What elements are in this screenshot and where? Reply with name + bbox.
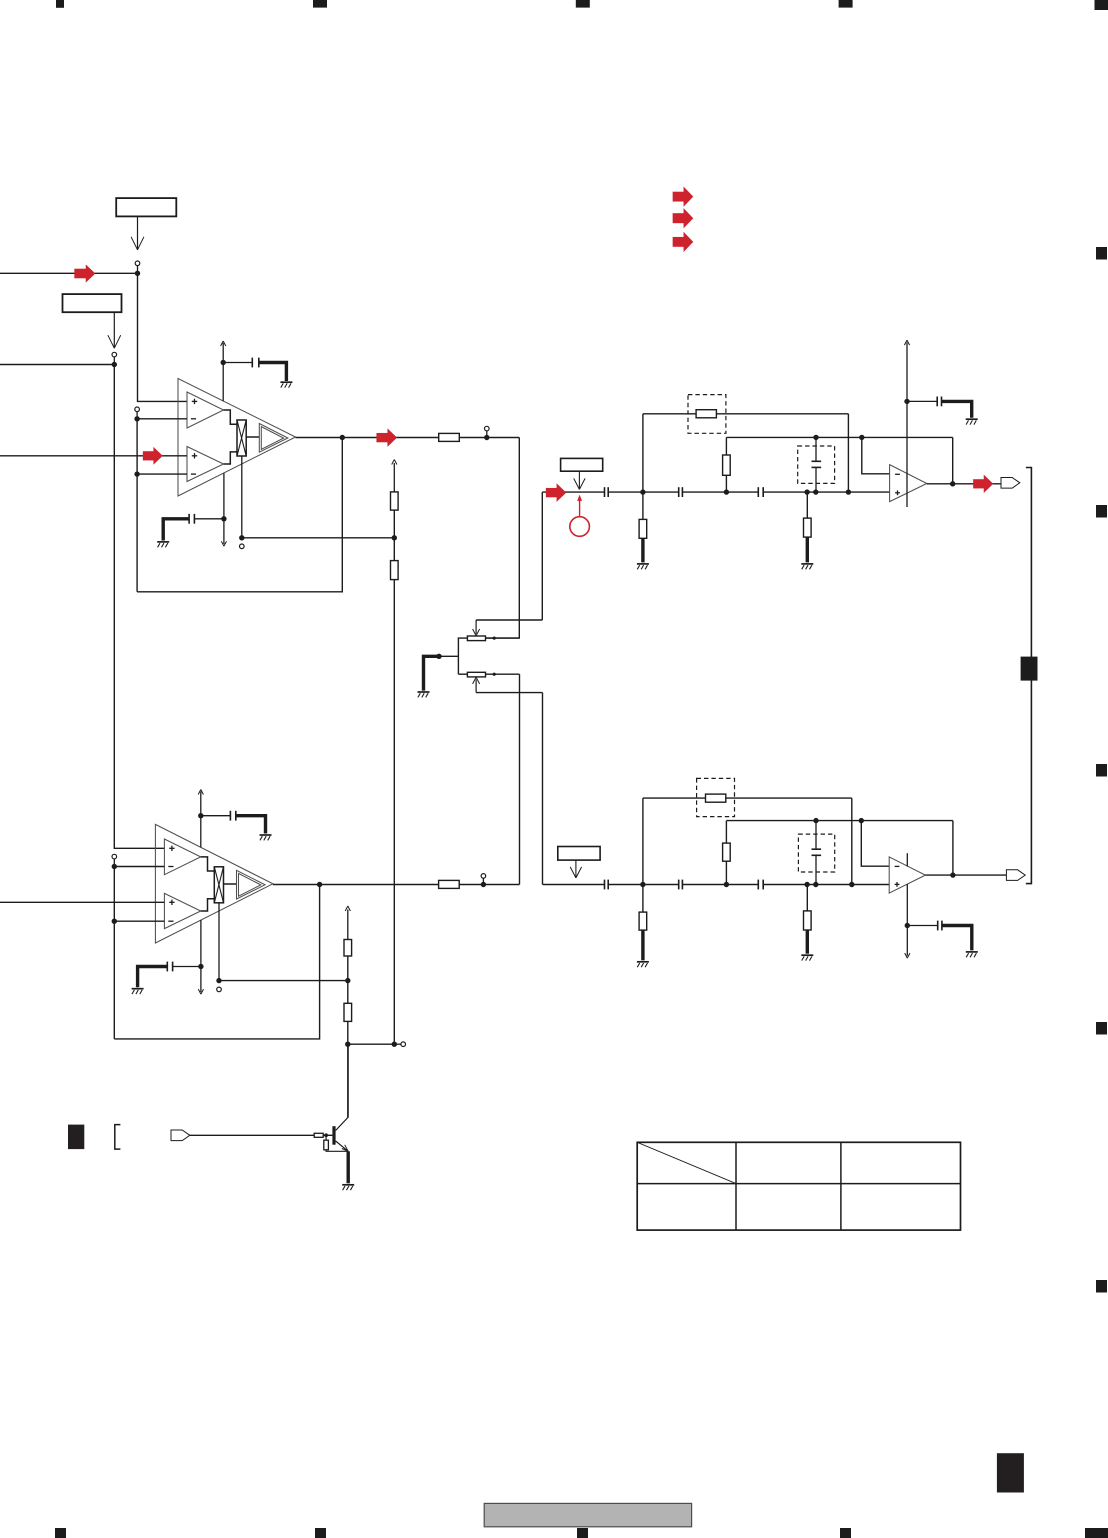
- connector OUT2: [1006, 870, 1025, 881]
- U3 -A pin label: [168, 866, 173, 868]
- wire VR2 right riser to U3 output: [519, 674, 521, 884]
- joint dot VR1 right: [493, 637, 496, 640]
- terminal circle U3 -A: [112, 854, 117, 859]
- op-amp U4 triangle: [889, 857, 925, 893]
- pointer arrow from label IN2: [113, 312, 115, 348]
- wire input 2: [0, 364, 114, 366]
- table column divider 1: [735, 1142, 737, 1230]
- resistor R-out-2 (horizontal): [439, 880, 460, 888]
- resistor R-sk1 vertical: [725, 475, 727, 492]
- wire VR1 wiper line: [476, 619, 542, 621]
- ground U3 V+: [260, 834, 272, 836]
- wire C1b to C1c: [682, 491, 758, 493]
- stub U1 -A terminal: [136, 412, 138, 417]
- node filter1-3: [804, 489, 809, 494]
- node filter2 minus tap: [859, 818, 864, 823]
- wire filter1 input: [542, 491, 604, 493]
- wire R-base to Q1: [323, 1134, 332, 1136]
- wire feedback resistor line f1: [643, 413, 849, 415]
- registration mark top-left: [56, 0, 64, 8]
- U3 +A pin label: [169, 847, 174, 849]
- node pot ground: [436, 654, 441, 659]
- resistor R-pulldown: [325, 1135, 327, 1140]
- wire divider join: [348, 1043, 395, 1045]
- red flow arrow U1 output: [377, 429, 398, 447]
- label box IN2: [63, 294, 122, 312]
- capacitor C2a series: [604, 880, 606, 890]
- wire filter2 input: [543, 884, 605, 886]
- pointer arrow from label ADJ2: [575, 860, 577, 878]
- U4 + pin label: [895, 883, 900, 885]
- thick lead U4 cap to ground: [942, 926, 972, 951]
- resistor R-fb2 (horizontal): [706, 794, 726, 802]
- wire U1 A output to mixer: [224, 410, 238, 424]
- node U1 -A: [134, 416, 139, 421]
- wire VR2 wiper riser to filter2: [542, 693, 544, 885]
- wire U4 feedback riser: [952, 821, 954, 876]
- supply arrow divider 2: [347, 910, 349, 940]
- resistor R-gnd f1-3: [806, 492, 808, 518]
- wire IN1 to U1 +A input: [138, 273, 188, 401]
- wire C2c to U4: [763, 884, 889, 886]
- legend red arrow 2: [673, 208, 694, 228]
- wire node to Rdiv1b: [393, 538, 395, 561]
- node divider join left: [345, 1042, 350, 1047]
- wire U4 minus feed: [861, 821, 889, 867]
- U3 mixer bias pin: [218, 903, 220, 981]
- thick lead U1 V+ cap to ground: [259, 363, 287, 382]
- wire U3 B output to mixer: [201, 899, 215, 911]
- node U1 -B: [134, 471, 139, 476]
- capacitor C-fb2 (vertical): [815, 821, 817, 850]
- registration mark right 4: [1096, 1022, 1107, 1035]
- U1 -A pin label: [191, 418, 196, 420]
- table row divider: [637, 1183, 960, 1185]
- capacitor U4 decoupling: [937, 921, 939, 931]
- U3 V- supply line: [200, 920, 202, 992]
- node U1 bias: [239, 535, 244, 540]
- U2 + pin label: [895, 492, 900, 494]
- capacitor C1a series: [604, 487, 606, 497]
- node U1 output feedback tap: [340, 435, 345, 440]
- op-amp U1 outer triangle: [178, 379, 296, 497]
- bracket mark: [115, 1125, 121, 1150]
- thick lead pot ground: [424, 656, 440, 690]
- ground filter1 node1: [637, 563, 649, 565]
- label box ADJ1: [561, 458, 603, 471]
- wire pot ground tap: [439, 655, 458, 657]
- node out2: [481, 882, 486, 887]
- registration mark top-right corner: [1095, 0, 1108, 10]
- resistor R-gnd f2-1: [642, 885, 644, 913]
- registration mark bottom-right corner: [1085, 1528, 1108, 1538]
- stub out2 terminal: [482, 878, 484, 882]
- transistor Q1 collector: [336, 1044, 349, 1130]
- dashed box R-fb1: [688, 395, 726, 434]
- wire Rdiv1a to node: [393, 510, 395, 538]
- U4 V+ stub: [906, 853, 908, 866]
- node filter2-3: [804, 882, 809, 887]
- op-amp U1 section B triangle: [187, 447, 224, 482]
- label box ADJ2: [558, 847, 600, 861]
- terminal circle divider: [401, 1042, 406, 1047]
- registration mark right 5: [1096, 1280, 1107, 1293]
- wire node to Rdiv2b: [347, 981, 349, 1004]
- wire after R-out-2: [459, 884, 519, 886]
- stub U3 -A terminal: [113, 859, 115, 864]
- wire U3 V- to cap: [173, 966, 201, 968]
- capacitor U1 V- decoupling: [188, 514, 190, 524]
- node filter1 minus tap: [859, 435, 864, 440]
- red measurement circle filter1: [570, 517, 590, 537]
- wire U1 output: [296, 437, 439, 439]
- red measurement arrow filter1: [579, 499, 581, 517]
- wire mute input: [190, 1134, 314, 1136]
- terminal circle U1 -A: [135, 407, 140, 412]
- ground filter1 node3: [801, 563, 813, 565]
- node U3 -B: [112, 919, 117, 924]
- resistor R-sk2 vertical: [725, 861, 727, 884]
- ground pots: [418, 691, 430, 693]
- node filter1-2: [724, 489, 729, 494]
- red flow arrow output 1: [973, 475, 993, 493]
- wire collector riser: [347, 1044, 349, 1117]
- wire Rdiv2b down: [347, 1021, 349, 1044]
- wire U1 -B input: [137, 473, 187, 475]
- op-amp U1 section A triangle: [187, 392, 224, 428]
- wire U1 out riser to pot1: [486, 438, 520, 639]
- node U3 -A: [112, 864, 117, 869]
- resistor R-fb1 (horizontal): [696, 410, 716, 418]
- potentiometer VR1 body: [467, 636, 485, 641]
- wire U3 -B input: [114, 920, 164, 922]
- wire VR1 left lead: [458, 638, 467, 674]
- connector MUTE input: [171, 1130, 190, 1141]
- resistor Rdiv2a: [344, 940, 352, 957]
- legend red arrow 3: [673, 232, 694, 252]
- registration mark top 2: [313, 0, 327, 8]
- thick lead Q1 emitter to ground: [347, 1151, 350, 1183]
- wire input 1: [0, 272, 138, 274]
- label box IN1: [116, 198, 176, 216]
- table frame: [637, 1142, 960, 1230]
- wire U2 feedback riser: [952, 437, 954, 483]
- pointer arrow from label IN1: [137, 216, 139, 249]
- ground filter2 node3: [801, 954, 813, 956]
- wire mixer to buffer U1: [246, 436, 259, 438]
- node U1 V+ decoupling: [221, 360, 226, 365]
- resistor R-base (horizontal): [314, 1133, 323, 1137]
- registration mark bottom 3: [577, 1528, 588, 1538]
- ground U4: [966, 951, 978, 953]
- buffer triangle U3 outer: [237, 870, 266, 899]
- dashed box R-fb2: [697, 778, 735, 816]
- transistor Q1 emitter: [336, 1141, 349, 1151]
- wire node1 riser f2: [642, 798, 644, 884]
- wire C1a to C1b: [608, 491, 679, 493]
- thick lead U3 V- cap to ground: [138, 967, 168, 988]
- dashed box C-fb1: [798, 446, 835, 483]
- thick lead U1 V- cap to ground: [163, 519, 189, 541]
- U3 feedback wire bottom: [114, 885, 319, 1039]
- buffer triangle U1 inner: [261, 427, 283, 450]
- wire after R-out-1: [459, 437, 519, 439]
- op-amp U2 triangle: [890, 465, 927, 502]
- wire U1 bias to divider: [242, 537, 394, 539]
- resistor R-out-1 (horizontal): [439, 433, 460, 441]
- capacitor C2c series: [757, 880, 759, 890]
- node filter2-4: [849, 882, 854, 887]
- wire U4 supply to cap: [907, 925, 937, 927]
- ground filter2 node1: [637, 961, 649, 963]
- wire U3 -A to -B vertical: [113, 867, 115, 1039]
- U1 -B pin label: [191, 473, 196, 475]
- capacitor C2b series: [678, 880, 680, 890]
- registration mark bottom 4: [840, 1528, 851, 1538]
- capacitor U1 V+ decoupling: [251, 358, 253, 368]
- capacitor U3 V+ decoupling: [229, 811, 231, 821]
- terminal circle U3 bias: [217, 987, 222, 992]
- resistor R-gnd f1-1: [642, 492, 644, 519]
- terminal circle IN2: [112, 352, 117, 357]
- node U4 output: [950, 872, 955, 877]
- output group bracket: [1026, 468, 1032, 884]
- registration mark right 1: [1096, 247, 1107, 260]
- black marker mid-right: [1021, 657, 1038, 681]
- U3 -B pin label: [168, 920, 173, 922]
- ground U1 V+: [280, 381, 292, 383]
- capacitor U2 decoupling: [936, 397, 938, 407]
- dashed box C-fb2: [798, 834, 834, 872]
- wire VR2 wiper line: [476, 692, 542, 694]
- ground U1 V-: [157, 541, 169, 543]
- wire R-fb1 riser to node4: [847, 414, 849, 492]
- red flow arrow filter1 input: [546, 483, 566, 501]
- node U1 V- decoupling: [221, 516, 226, 521]
- node U3 bias: [216, 978, 221, 983]
- node filter2 dashed-cap bottom: [813, 882, 818, 887]
- wire U3 bias to divider 2: [219, 980, 348, 982]
- wire VR2 left lead: [458, 673, 467, 675]
- wire node1 riser: [642, 414, 644, 492]
- wire -A to -B vertical: [136, 419, 138, 592]
- wire U1 B output to mixer: [224, 452, 238, 464]
- wire C2a to C2b: [608, 884, 679, 886]
- U1 feedback wire bottom: [137, 438, 342, 592]
- node U3 V- decoupling: [198, 964, 203, 969]
- wire divider 1 long drop: [393, 580, 395, 1045]
- wire sk1 output line: [726, 436, 952, 438]
- table column divider 2: [840, 1142, 842, 1230]
- wire IN2 to U3 +A input (long riser): [114, 365, 164, 849]
- registration mark bottom 2: [315, 1528, 326, 1538]
- black marker bottom-left: [68, 1125, 84, 1150]
- wire VR2 right lead: [486, 673, 520, 675]
- U3 +B pin label: [169, 901, 174, 903]
- pointer arrow from label ADJ1: [578, 471, 580, 489]
- registration mark top 4: [839, 0, 853, 8]
- node out1: [484, 435, 489, 440]
- node U2 supply decoupling: [904, 399, 909, 404]
- registration mark top 3: [576, 0, 590, 8]
- VR1 wiper: [475, 620, 477, 634]
- registration mark right 3: [1096, 764, 1107, 777]
- ground Q1 emitter: [342, 1184, 354, 1186]
- wire U3 -A input: [114, 866, 164, 868]
- node filter1-1: [640, 489, 645, 494]
- wire U1 V+ to cap: [223, 362, 252, 364]
- wire U3 output: [273, 884, 439, 886]
- U4 - pin label: [895, 865, 900, 867]
- red flow arrow on input 3: [143, 447, 163, 465]
- wire U3 V+ to cap: [201, 815, 231, 817]
- ground U3 V-: [132, 988, 144, 990]
- wire U2 supply to cap: [907, 400, 937, 402]
- resistor Rdiv1b: [391, 561, 399, 580]
- mixer cell U1 (crossed box): [237, 420, 246, 456]
- op-amp U3 outer triangle: [155, 824, 273, 943]
- gray footer bar: [484, 1503, 691, 1526]
- node U4 supply decoupling: [905, 923, 910, 928]
- ground U2: [966, 418, 978, 420]
- resistor Rdiv1a: [391, 492, 399, 510]
- node U3 output feedback tap: [317, 882, 322, 887]
- wire input 3 to U1 +B: [0, 455, 187, 457]
- node U3 V+ decoupling: [198, 813, 203, 818]
- wire U2 minus feed: [862, 437, 890, 473]
- buffer triangle U3 inner: [239, 873, 261, 896]
- node filter1-4: [846, 489, 851, 494]
- connector OUT1: [1001, 478, 1020, 489]
- transistor Q1 base bar: [332, 1126, 335, 1145]
- node U2 output: [950, 481, 955, 486]
- node divider join right: [392, 1042, 397, 1047]
- U2 V+ supply line: [906, 343, 908, 508]
- legend red arrow 1: [673, 187, 694, 207]
- joint dot VR2 right: [493, 673, 496, 676]
- node filter1 dashed-cap bottom: [813, 489, 818, 494]
- wire U3 A output to mixer: [201, 857, 215, 871]
- buffer triangle U1 outer: [259, 424, 288, 453]
- terminal circle IN1: [135, 261, 140, 266]
- VR2 wiper: [475, 679, 477, 692]
- resistor Rdiv2b: [344, 1003, 352, 1021]
- wire C2b to C2c: [682, 884, 758, 886]
- capacitor C1b series: [678, 487, 680, 497]
- terminal circle U1 bias: [240, 544, 245, 549]
- U3 V+ supply line: [200, 792, 202, 848]
- thick lead U2 cap to ground: [942, 401, 972, 417]
- terminal circle out1: [485, 426, 490, 431]
- wire stub IN1: [137, 266, 139, 271]
- node IN2 junction: [112, 362, 117, 367]
- mixer cell U3 (crossed box): [214, 867, 223, 903]
- wire feedback resistor line f2: [643, 797, 852, 799]
- wire mixer to buffer U3: [224, 883, 237, 885]
- op-amp U3 section B triangle: [164, 893, 200, 928]
- supply arrow divider 1: [393, 463, 395, 492]
- registration mark right 2: [1096, 505, 1107, 518]
- wire Rdiv2a to node: [347, 956, 349, 981]
- table diagonal: [637, 1142, 736, 1183]
- capacitor U3 V- decoupling: [166, 962, 168, 972]
- resistor R-gnd f2-3: [806, 885, 808, 911]
- wire U1 V- to cap: [194, 518, 224, 520]
- node divider 2: [345, 978, 350, 983]
- U1 +A pin label: [192, 400, 197, 402]
- node divider 1: [392, 535, 397, 540]
- wire input 4 to U3 +B: [0, 901, 164, 903]
- U2 - pin label: [895, 473, 900, 475]
- wire sk2 output line: [726, 820, 953, 822]
- wire VR1 wiper riser to filter1: [541, 492, 543, 620]
- wire U4 output: [925, 874, 1006, 876]
- op-amp U3 section A triangle: [164, 839, 200, 875]
- wire U2 output: [927, 483, 1001, 485]
- wire VR1 right lead: [486, 637, 520, 639]
- node filter2-2: [724, 882, 729, 887]
- black marker bottom-right: [997, 1453, 1024, 1492]
- U1 V- supply line: [223, 473, 225, 544]
- red flow arrow on input 1: [74, 265, 95, 283]
- node base divider: [324, 1133, 328, 1137]
- terminal circle out2: [481, 874, 486, 879]
- node IN1 junction: [135, 271, 140, 276]
- node filter1 dashed-cap top: [813, 435, 818, 440]
- thick lead U3 V+ cap to ground: [236, 816, 266, 834]
- node filter2 dashed-cap top: [813, 818, 818, 823]
- U1 +B pin label: [192, 455, 197, 457]
- wire R-fb2 riser to node4: [851, 798, 853, 884]
- wire U1 -A input: [137, 418, 187, 420]
- capacitor C1c series: [757, 487, 759, 497]
- wire C1c to U2: [763, 491, 889, 493]
- U1 V+ supply line: [222, 343, 224, 401]
- U4 V- supply line: [906, 884, 908, 956]
- registration mark bottom 1: [55, 1528, 66, 1538]
- potentiometer VR2 body: [467, 672, 485, 677]
- capacitor C-fb1 (vertical): [815, 437, 817, 461]
- node filter2-1: [640, 882, 645, 887]
- U1 mixer bias pin: [241, 456, 243, 538]
- wire stub IN2: [113, 357, 115, 362]
- stub out1 terminal: [486, 431, 488, 435]
- stub divider terminal: [394, 1043, 401, 1045]
